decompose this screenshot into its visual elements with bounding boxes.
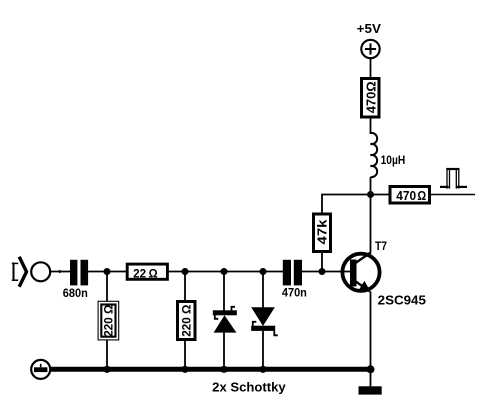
wire node A down to 220Ω left [106, 272, 108, 302]
wire node to output resistor [371, 194, 390, 196]
capacitor 470n [282, 260, 307, 300]
wire supply to R 470 [370, 58, 372, 78]
wire 220Ω right to rail [184, 340, 186, 370]
node J (rail end, emitter) [367, 365, 375, 373]
svg-text:220 Ω: 220 Ω [180, 305, 194, 337]
wire 470n to base [302, 271, 351, 273]
resistor 470Ω (output, horizontal) [390, 187, 430, 204]
wire node to 47k corner [322, 195, 371, 215]
node B (22Ω / 220Ω junction) [182, 268, 189, 275]
node G (rail, 220Ω right) [181, 366, 188, 373]
svg-text:470n: 470n [282, 285, 307, 299]
ground terminal [31, 360, 50, 379]
svg-text:470: 470 [396, 189, 416, 203]
wire input circle to 680n with direction tick [50, 271, 70, 273]
resistor 47k [314, 214, 331, 252]
diode D1 Schottky (cathode up) [213, 272, 237, 370]
wire inductor to node [370, 177, 372, 195]
pulse waveform symbol [440, 168, 467, 189]
wire emitter down to rail [370, 292, 372, 370]
svg-text:+5V: +5V [357, 22, 382, 36]
resistor 470Ω (top, vertical) [362, 79, 380, 118]
svg-text:2SC945: 2SC945 [378, 293, 426, 307]
inductor 10µH [371, 133, 406, 177]
resistor 220Ω (left, double border) [98, 301, 119, 340]
svg-text:Ω: Ω [149, 266, 158, 280]
node A (680n / 220Ω junction) [104, 268, 111, 275]
wire 22Ω to 470n [167, 271, 283, 273]
capacitor 680n [63, 260, 88, 300]
svg-text:680n: 680n [63, 286, 88, 300]
svg-text:47k: 47k [316, 219, 330, 244]
resistor 220Ω (right) [178, 302, 196, 340]
node E (47k / base junction) [319, 268, 326, 275]
wire 680n to 22Ω [88, 271, 126, 273]
transistor T7 [342, 241, 426, 308]
svg-text:22: 22 [133, 266, 146, 280]
+5V supply terminal [357, 22, 382, 58]
wire collector up to node [370, 195, 372, 253]
ground symbol [359, 369, 382, 394]
node F (rail, 220Ω left) [103, 366, 110, 373]
wire R to inductor [370, 117, 372, 134]
svg-text:2x Schottky: 2x Schottky [212, 380, 286, 394]
wire 220Ω left to rail [106, 340, 108, 369]
svg-text:10µH: 10µH [381, 153, 406, 167]
svg-text:220 Ω: 220 Ω [102, 305, 116, 337]
wire output [430, 194, 476, 196]
svg-text:T7: T7 [375, 241, 387, 253]
svg-text:470Ω: 470Ω [363, 81, 378, 113]
node I (rail, D2) [259, 366, 266, 373]
node H (rail, D1) [220, 366, 227, 373]
input connector [12, 257, 50, 287]
node C (diode D1 junction) [221, 268, 228, 275]
wire 47k to base node [321, 253, 323, 272]
diode D2 Schottky (cathode down) [251, 272, 278, 370]
ground rail [50, 367, 371, 372]
svg-text:Ω: Ω [417, 189, 426, 203]
node collector-top junction [367, 191, 374, 198]
node D (diode D2 junction) [260, 268, 267, 275]
resistor 22Ω [127, 264, 167, 280]
wire node B down to 220Ω right [184, 272, 186, 302]
